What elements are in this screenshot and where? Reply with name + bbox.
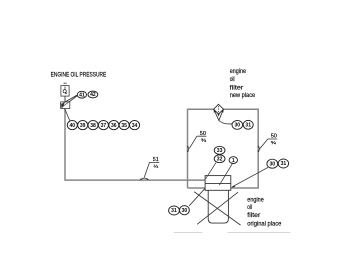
svg-text:37: 37 — [101, 123, 107, 129]
svg-text:33: 33 — [217, 148, 223, 154]
svg-text:34: 34 — [132, 123, 138, 129]
svg-text:filter: filter — [230, 84, 244, 91]
svg-text:38: 38 — [90, 123, 96, 129]
svg-text:36: 36 — [111, 123, 117, 129]
svg-text:31: 31 — [171, 208, 177, 214]
svg-text:50: 50 — [271, 134, 277, 140]
svg-text:42: 42 — [90, 92, 96, 98]
svg-text:30: 30 — [235, 123, 241, 129]
svg-text:engine: engine — [247, 196, 264, 203]
svg-text:32: 32 — [217, 157, 223, 163]
svg-text:oil: oil — [230, 76, 235, 83]
svg-text:30: 30 — [270, 161, 276, 167]
svg-text:filter: filter — [247, 212, 260, 219]
svg-text:31: 31 — [281, 161, 287, 167]
svg-text:39: 39 — [80, 123, 86, 129]
svg-text:1: 1 — [232, 158, 235, 164]
svg-text:original place: original place — [247, 220, 281, 227]
svg-text:ENGINE OIL PRESSURE: ENGINE OIL PRESSURE — [51, 72, 107, 79]
svg-text:35: 35 — [121, 123, 127, 129]
svg-text:50: 50 — [200, 131, 206, 137]
svg-text:engine: engine — [230, 68, 247, 75]
svg-text:40: 40 — [70, 123, 76, 129]
svg-text:41: 41 — [79, 92, 85, 98]
svg-text:30: 30 — [182, 208, 188, 214]
svg-text:31: 31 — [245, 123, 251, 129]
svg-text:new place: new place — [230, 92, 256, 99]
svg-text:51: 51 — [153, 157, 159, 163]
svg-text:oil: oil — [247, 204, 252, 211]
